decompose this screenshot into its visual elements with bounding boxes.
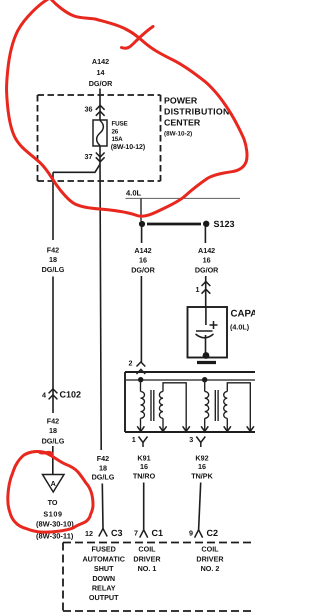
svg-text:RELAY: RELAY — [92, 583, 116, 592]
svg-text:A142: A142 — [92, 57, 109, 66]
svg-text:CENTER: CENTER — [164, 118, 201, 128]
svg-text:F42: F42 — [47, 246, 59, 255]
svg-text:18: 18 — [49, 255, 57, 264]
svg-text:12: 12 — [85, 529, 93, 538]
svg-text:POWER: POWER — [164, 96, 198, 106]
svg-text:18: 18 — [99, 463, 107, 472]
svg-text:K91: K91 — [137, 453, 150, 462]
svg-text:DG/OR: DG/OR — [131, 266, 155, 275]
svg-text:9: 9 — [189, 529, 193, 538]
svg-text:COIL: COIL — [138, 545, 156, 554]
svg-text:TN/PK: TN/PK — [191, 471, 213, 480]
svg-text:S109: S109 — [43, 510, 62, 519]
svg-text:DISTRIBUTION: DISTRIBUTION — [164, 107, 230, 117]
svg-text:NO. 2: NO. 2 — [201, 564, 220, 573]
svg-text:(4.0L): (4.0L) — [230, 323, 250, 332]
svg-text:36: 36 — [85, 105, 93, 114]
svg-text:TO: TO — [48, 498, 58, 507]
svg-text:A: A — [51, 479, 56, 488]
svg-text:15A: 15A — [112, 136, 124, 143]
svg-text:DOWN: DOWN — [92, 574, 115, 583]
svg-text:14: 14 — [97, 68, 105, 77]
svg-text:AUTOMATIC: AUTOMATIC — [82, 554, 124, 563]
svg-text:(8W-10-12): (8W-10-12) — [111, 143, 145, 151]
svg-text:26: 26 — [112, 128, 119, 135]
svg-text:A142: A142 — [198, 246, 215, 255]
svg-text:NO. 1: NO. 1 — [138, 564, 157, 573]
svg-text:DG/LG: DG/LG — [42, 437, 65, 446]
svg-text:16: 16 — [198, 462, 206, 471]
svg-text:(8W-10-2): (8W-10-2) — [164, 131, 192, 138]
svg-text:16: 16 — [140, 462, 148, 471]
svg-text:FUSE: FUSE — [112, 121, 128, 128]
svg-text:1: 1 — [132, 435, 136, 444]
svg-text:16: 16 — [203, 256, 211, 265]
svg-text:4: 4 — [42, 391, 46, 400]
svg-text:18: 18 — [49, 426, 57, 435]
svg-text:16: 16 — [139, 256, 147, 265]
svg-text:COIL: COIL — [201, 545, 219, 554]
svg-text:3: 3 — [189, 435, 193, 444]
svg-text:A142: A142 — [134, 246, 151, 255]
svg-text:37: 37 — [85, 152, 93, 161]
svg-text:SHUT: SHUT — [94, 564, 114, 573]
svg-text:4.0L: 4.0L — [126, 189, 142, 198]
svg-text:TN/RO: TN/RO — [133, 471, 156, 480]
svg-text:C2: C2 — [207, 528, 219, 538]
svg-text:OUTPUT: OUTPUT — [89, 593, 119, 602]
svg-text:F42: F42 — [47, 417, 59, 426]
svg-text:FUSED: FUSED — [92, 545, 116, 554]
svg-text:DG/OR: DG/OR — [89, 79, 113, 88]
svg-text:C1: C1 — [152, 528, 164, 538]
svg-text:DG/LG: DG/LG — [92, 473, 115, 482]
svg-text:S123: S123 — [214, 219, 235, 229]
svg-text:DG/LG: DG/LG — [42, 265, 65, 274]
svg-text:7: 7 — [134, 529, 138, 538]
svg-text:F42: F42 — [97, 454, 109, 463]
svg-text:2: 2 — [129, 359, 133, 368]
svg-text:K92: K92 — [195, 453, 208, 462]
svg-text:(8W-30-10): (8W-30-10) — [36, 520, 74, 529]
svg-text:CAPACITOR: CAPACITOR — [231, 309, 256, 320]
svg-text:C102: C102 — [60, 390, 82, 400]
svg-text:DRIVER: DRIVER — [133, 554, 161, 563]
svg-text:DG/OR: DG/OR — [195, 266, 219, 275]
svg-text:1: 1 — [196, 285, 200, 294]
svg-text:C3: C3 — [111, 528, 123, 538]
svg-text:DRIVER: DRIVER — [196, 554, 224, 563]
